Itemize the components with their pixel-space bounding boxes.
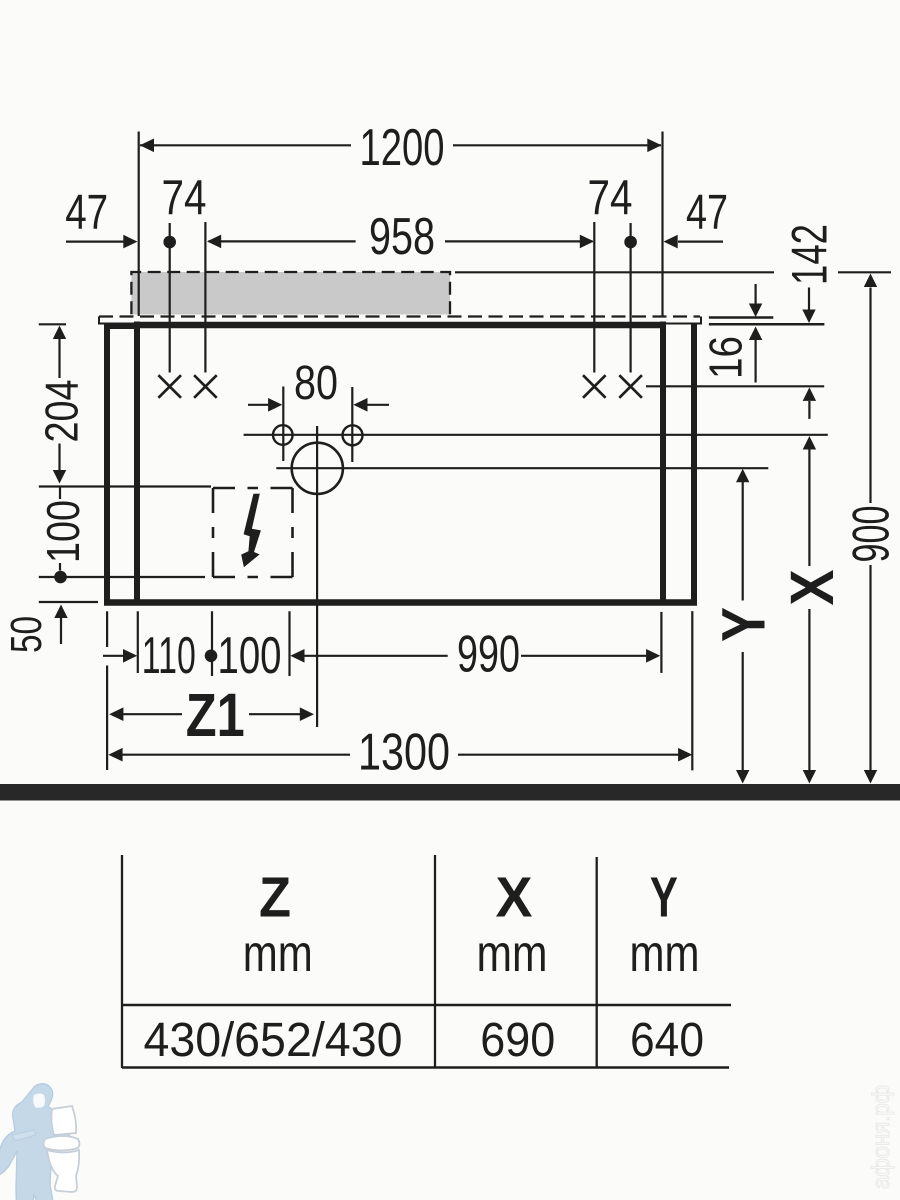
table bottom border [122,1066,729,1069]
svg-text:Z1: Z1 [186,681,245,749]
hole line left A [169,223,171,373]
watermark: plumber logo bottom-left [0,1084,80,1200]
100 arrow (points left) [290,649,304,663]
x-marks (mounting points) [158,375,642,398]
dim 100 : stems [59,487,61,500]
dim 142 : reference line [455,271,774,273]
47 right arrow (points left) [664,235,678,249]
hole line right B [629,223,631,373]
faucet hole left [273,425,293,445]
svg-text:80: 80 [294,357,338,410]
142 down arrow [802,310,815,324]
dim 47 left : line [66,241,124,243]
mirror / back panel (gray) [131,272,450,315]
toilet cistern [51,1106,76,1135]
svg-text:74: 74 [588,171,633,225]
svg-text:16: 16 [700,336,752,379]
countertop thickness line B [709,323,825,326]
wrench in hand [12,1130,36,1141]
svg-text:1200: 1200 [360,119,445,177]
toilet bowl and base [47,1150,79,1192]
dim Z1 : line segments [123,713,183,715]
svg-text:47: 47 [686,186,728,240]
dim 110/100/990 : line segments [103,655,124,657]
Y up / down arrows [736,469,749,483]
countertop outline (thin) [99,317,701,324]
svg-text:mm: mm [477,925,548,983]
toilet rim [44,1136,80,1151]
svg-text:142: 142 [782,224,838,285]
110 arrow (points right) [123,649,137,663]
cabinet right inner line [660,322,666,603]
dim 47 right : line [678,241,723,243]
dim 80 : right ext [351,387,353,462]
svg-text:100: 100 [37,500,89,563]
204 down arrow [53,470,66,484]
cabinet left inner line [134,322,140,603]
16 up arrow [749,327,762,341]
dim 1300 : line segments [122,754,350,756]
table left border [121,855,123,1068]
svg-text:990: 990 [457,626,520,684]
svg-text:958: 958 [369,208,435,266]
table header separator [122,1004,731,1007]
svg-text:X: X [496,866,533,930]
dim 1200 : extension lines [138,132,140,317]
50 up arrow [54,605,67,619]
svg-text:640: 640 [630,1014,704,1067]
reference line drain hole [276,467,768,469]
80 right arrow (points left) [353,398,367,412]
dim Y : stems [742,482,744,601]
204 up arrow [53,326,66,340]
dim 50 : stem [60,618,62,644]
faucet hole right [343,425,363,445]
cabinet left cheek top [104,324,140,329]
dim X : stems [808,450,810,567]
X stub arrow stem [808,401,810,419]
900 up / down arrows [864,274,877,288]
svg-text:690: 690 [480,1014,555,1067]
80 left arrow (points right) [268,398,282,412]
svg-text:Y: Y [710,607,778,642]
plumber face [33,1094,45,1108]
table column line 2 [596,857,598,1067]
chain dimension dots [163,236,176,249]
958 left / right [207,235,221,249]
floor line [0,784,900,801]
svg-text:204: 204 [36,380,88,443]
svg-text:74: 74 [162,171,207,225]
dim 16 : lower arrow stem [754,340,756,383]
X stub up arrow [803,387,816,401]
1200 left / right [140,139,154,153]
X up / down arrows [803,436,816,450]
svg-text:110: 110 [142,627,196,685]
dim 204 : lower stem [58,444,60,471]
plumber figure (light blue silhouette) [0,1084,70,1200]
svg-text:mm: mm [243,925,313,983]
dim 1200 : dimension line [140,144,351,146]
dim 204/100 : middle tick + ext line [39,485,211,487]
Z1 left / right arrows [109,707,123,721]
drain hole [292,443,343,494]
dim 204 : top tick [39,323,66,325]
bottom ext lines [106,611,108,647]
svg-text:mm: mm [630,925,700,983]
svg-text:900: 900 [843,506,900,563]
hole line right A [593,222,595,373]
svg-text:Z: Z [259,866,291,930]
svg-text:50: 50 [2,616,51,653]
dim 958 : line [209,240,356,242]
lightning bolt [241,494,261,568]
electrical connection box (dash-dot) [213,488,293,577]
countertop thickness line A [709,316,773,319]
svg-text:Y: Y [650,866,678,930]
svg-text:афоня.рф: афоня.рф [868,1085,895,1189]
basin vertical centerline [316,426,318,727]
dim 16 : upper arrow stem [754,284,756,304]
dim 100 : bottom ext line [39,576,205,578]
cabinet bottom edge (thick) [104,599,697,606]
dim 142 : arrow stem [808,288,810,313]
cabinet top edge (thick) [137,322,663,329]
dim 80 : left arrow line [248,404,269,406]
dim 80 : left ext [282,387,284,462]
table column line 1 [434,855,436,1068]
1300 left / right arrows [108,748,122,762]
cabinet right outer wall [691,324,697,603]
svg-text:X: X [778,569,846,605]
reference line faucet holes [244,434,828,436]
dim 50 : tick [39,601,98,603]
dim 900 : stems [869,288,871,504]
arrowheads [53,139,877,784]
svg-text:47: 47 [65,186,108,240]
hole line left B [204,222,206,373]
svg-text:430/652/430: 430/652/430 [144,1014,403,1067]
990 arrow (points right) [646,649,660,663]
countertop hidden edge (long dashed line) [99,315,700,317]
47 left arrow (points right) [123,235,137,249]
reference line at x-marks level [646,385,824,387]
dim 80 : right arrow line [367,404,390,406]
16 down arrow [749,304,762,318]
dim 204 : upper stem [58,339,60,378]
svg-text:100: 100 [218,627,282,685]
cabinet left outer wall [104,324,110,603]
svg-text:1300: 1300 [358,724,450,782]
